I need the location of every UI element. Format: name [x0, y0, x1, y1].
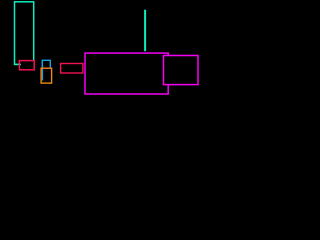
cyan vertical line	[144, 10, 146, 52]
red rectangle	[61, 64, 83, 74]
blue rectangle	[42, 60, 50, 72]
orange rectangle stroke	[41, 68, 52, 83]
cyan tall rectangle	[15, 2, 34, 65]
blue vertical line	[41, 60, 43, 80]
cyan bottom edge stub	[15, 63, 22, 65]
orange rectangle fill	[41, 68, 52, 83]
right magenta rectangle	[164, 56, 199, 85]
crimson rectangle fill	[19, 61, 34, 70]
crimson rectangle stroke	[19, 61, 34, 70]
big magenta rectangle	[85, 53, 168, 94]
